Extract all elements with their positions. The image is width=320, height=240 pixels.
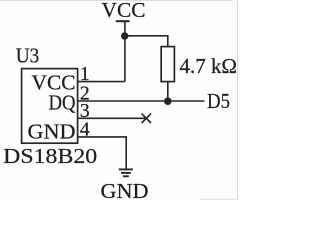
pin name GND <box>28 120 76 144</box>
refdes U3 <box>16 43 40 67</box>
no-connect cross on pin 3 <box>142 114 151 123</box>
svg-text:4.7 kΩ: 4.7 kΩ <box>180 54 238 78</box>
wire pin 2 DQ to D5 <box>78 100 205 102</box>
resistor value label 4.7 kOhm <box>180 54 238 78</box>
ground symbol <box>119 169 133 176</box>
IC U3 DS18B20 body <box>22 69 78 144</box>
resistor 4.7 kOhm body <box>161 47 174 82</box>
pin name VCC <box>32 71 76 95</box>
VCC power symbol bar <box>116 20 130 22</box>
wire pin 4 to ground <box>78 137 127 170</box>
svg-text:VCC: VCC <box>102 0 146 22</box>
svg-text:DQ: DQ <box>49 90 76 114</box>
wire resistor bottom lead to DQ line <box>167 82 169 101</box>
wire VCC stem down to pin 1 <box>124 21 126 81</box>
net GND label <box>101 179 149 203</box>
pin number 3 <box>80 100 90 122</box>
node D5 label <box>207 89 230 113</box>
part name DS18B20 <box>3 144 97 168</box>
pin number 4 <box>80 118 90 140</box>
wire pin 3 stub <box>78 117 146 119</box>
pin number 2 <box>80 82 90 104</box>
junction dot VCC branch <box>121 32 128 39</box>
svg-text:GND: GND <box>28 120 76 144</box>
pin number 1 <box>80 63 90 85</box>
pin name DQ <box>49 90 76 114</box>
junction dot on DQ/D5 line <box>164 97 172 105</box>
svg-text:DS18B20: DS18B20 <box>3 144 97 168</box>
net VCC label <box>102 0 146 22</box>
svg-text:GND: GND <box>101 179 149 200</box>
wire VCC branch to resistor top <box>125 36 168 47</box>
svg-text:D5: D5 <box>207 89 230 113</box>
wire pin 1 to VCC stem <box>78 81 125 83</box>
svg-text:U3: U3 <box>16 43 40 67</box>
